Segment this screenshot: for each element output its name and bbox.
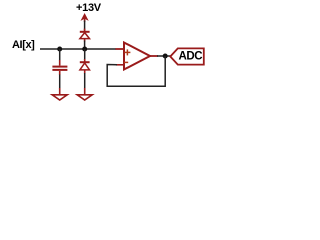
- wire node-to-diode2: [84, 49, 86, 60]
- negative rail arrow (below capacitor): [52, 88, 67, 100]
- op-amp U1: [116, 43, 159, 70]
- diode D1 (clamp to +13V): [80, 29, 90, 42]
- wire arrow-to-diode: [84, 21, 86, 31]
- power arrow +13V: [81, 13, 89, 22]
- node output: [163, 54, 168, 59]
- ADC tag: [170, 48, 204, 64]
- diode D2 (clamp to negative rail): [80, 59, 90, 74]
- wire feedback loop: [107, 56, 165, 86]
- svg-text:ADC: ADC: [179, 50, 203, 62]
- negative rail arrow (below diode D2): [77, 88, 92, 100]
- wire main signal: [40, 48, 116, 50]
- wire diode2-to-arrow: [84, 73, 86, 89]
- node J2: [82, 47, 87, 52]
- svg-text:AI[x]: AI[x]: [12, 39, 35, 51]
- wire op-amp output: [157, 55, 171, 57]
- capacitor C1: [52, 60, 67, 75]
- op-amp minus sign: [124, 61, 128, 63]
- wire diode-to-node: [84, 41, 86, 50]
- wire capacitor-to-arrow: [59, 75, 61, 89]
- wire node-to-capacitor: [59, 49, 61, 61]
- op-amp plus sign: [124, 49, 130, 55]
- svg-text:+13V: +13V: [76, 2, 102, 14]
- node J1: [57, 47, 62, 52]
